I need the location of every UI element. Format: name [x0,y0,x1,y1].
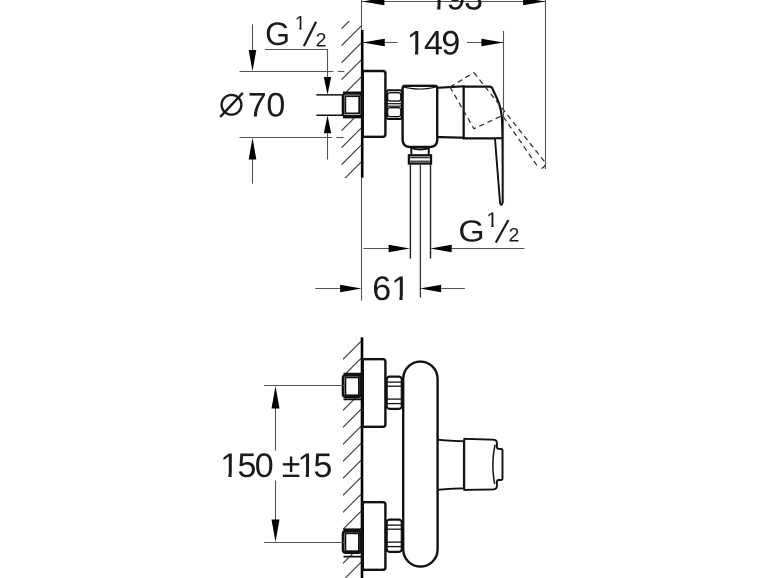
svg-text:±15: ±15 [282,447,333,485]
dim O70 bottom extension line [240,137,333,139]
handle neck (lower view) [438,440,464,490]
dim 149 right arrow [481,39,503,47]
flange lines lower connection [344,528,362,530]
square union nut upper (lower view) [343,375,361,397]
hose thread dim line right [452,248,525,250]
G1/2 arrow up [324,115,331,133]
serif removal patches for digit 1 [431,6,437,12]
escutcheon lower (lower view) [363,502,386,570]
svg-text:61: 61 [372,270,410,308]
handle end arc [493,445,495,484]
hex nut (upper view) [387,90,402,119]
handle lever blade (upper view) [495,138,503,205]
svg-text:150: 150 [220,447,274,485]
hose dim right arrow [430,245,451,253]
wall hatching (lower view) [343,341,361,578]
extension line at dashed handle tip (193) [545,0,547,169]
dim 150 up arrow [272,386,280,409]
G1/2 leader line [265,50,328,78]
svg-text:2: 2 [509,225,520,247]
dim 193 left arrow [362,0,384,5]
hex nut upper (lower view) [387,377,402,409]
wall line (lower view) [361,337,364,578]
O70 label [222,95,242,115]
dashed handle outline (raised position) [450,73,545,169]
dimension 149 line [363,42,398,44]
dim O70 bottom arrow [249,138,257,160]
handle base (upper view) [464,87,503,139]
dim 150 bottom extension line [264,542,344,544]
wall hatching (upper view) [341,9,361,199]
cartridge cap section [437,86,463,137]
mixer body capsule (lower view) [403,362,437,567]
supply pipe stub [316,95,344,114]
hose centre line [419,164,421,298]
square union nut lower (lower view) [343,531,361,553]
dim 61 left arrow [340,285,361,293]
hose thread dim line left [363,248,389,250]
dim 193 right arrow [523,0,545,5]
dim O70 top extension line [240,71,334,73]
escutcheon / wall flange (upper view) [363,71,386,137]
dim 61 line right [441,288,465,290]
dim 150 top extension line [264,385,344,387]
G 1/2 label (hose thread) [458,214,484,248]
flange lines upper connection [344,373,362,375]
outlet neck [411,148,429,155]
svg-text:G: G [265,16,290,52]
svg-text:2: 2 [316,30,327,52]
wall line (upper view) [361,0,363,32]
square union nut (upper view) [343,92,362,94]
dim O70 top arrow [252,24,254,51]
dim 61 line left [315,288,340,290]
dim 150 down arrow [272,520,280,543]
handle grip block (lower view) [464,439,502,490]
hose dim left arrow [389,245,410,253]
svg-text:1: 1 [295,12,306,34]
dimension 193 line [362,1,545,3]
dim 61 right arrow [420,285,441,293]
hose coupling nut [409,155,431,163]
dim 149 left arrow [363,39,385,47]
escutcheon upper (lower view) [363,359,386,427]
G1/2 arrow down [324,77,331,95]
hex nut lower (lower view) [387,520,402,552]
dim 150 vertical line [275,408,277,451]
svg-text:149: 149 [407,24,461,62]
valve body (upper view) [403,86,438,147]
extension line at handle tip (149) [503,31,505,203]
shower hose outline lines [409,164,411,259]
body top face arc [404,87,437,89]
svg-text:70: 70 [248,86,285,124]
svg-text:G: G [458,214,484,248]
svg-text:1: 1 [486,209,498,232]
